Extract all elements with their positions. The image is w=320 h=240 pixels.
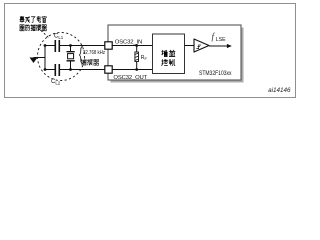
pin OSC32_OUT xyxy=(105,66,112,73)
ground stub wire xyxy=(34,57,46,59)
ground symbol (arrow) xyxy=(30,58,38,64)
label 谐振器 xyxy=(81,59,86,65)
dashed callout pointer xyxy=(41,31,49,38)
capacitor CL1 xyxy=(55,40,59,52)
wire: OSC32_IN internal xyxy=(112,45,153,47)
wire: fLSE output arrow xyxy=(209,44,232,48)
label 增益 xyxy=(162,50,168,56)
wire: OSC32_OUT internal xyxy=(112,69,153,71)
wire: top net OSC32_IN exterior xyxy=(45,45,105,47)
resistor RF xyxy=(135,46,139,70)
wire: gain box to amplifier xyxy=(185,45,195,47)
node: crystal bottom junction xyxy=(69,68,72,71)
node: CL1-rail junction xyxy=(44,44,47,47)
label 控制 xyxy=(162,59,168,65)
svg-text:CL2: CL2 xyxy=(51,79,61,85)
svg-text:OSC32_IN: OSC32_IN xyxy=(115,40,142,46)
brace xyxy=(79,46,83,64)
pin OSC32_IN xyxy=(105,42,112,49)
hysteresis symbol xyxy=(196,45,201,49)
svg-text:STM32F103xx: STM32F103xx xyxy=(199,70,232,77)
STM32 box shadow xyxy=(111,28,244,83)
svg-text:LSE: LSE xyxy=(216,37,226,43)
node: CL2-rail junction xyxy=(44,68,47,71)
STM32F103xx box xyxy=(108,25,241,80)
node: RF bottom junction xyxy=(135,68,138,71)
wire: bottom net OSC32_OUT exterior xyxy=(45,69,105,71)
op-amp (oscillator amplifier) xyxy=(194,39,209,52)
node: RF top junction xyxy=(135,44,138,47)
gain control box xyxy=(153,34,185,74)
svg-text:OSC32_OUT: OSC32_OUT xyxy=(113,75,147,81)
svg-text:32.768 kHz: 32.768 kHz xyxy=(83,50,105,56)
dashed ellipse (resonator grouping) xyxy=(38,33,85,81)
annotation text line1 集成了电容 xyxy=(20,16,25,22)
node: crystal top junction xyxy=(69,44,72,47)
crystal 32.768 kHz xyxy=(67,46,75,70)
svg-text:CL1: CL1 xyxy=(54,34,64,40)
wire: left ground rail xyxy=(44,46,46,70)
annotation text line2 器的谐振器 xyxy=(20,25,25,31)
svg-text:ai14146: ai14146 xyxy=(268,87,291,94)
svg-text:RF: RF xyxy=(141,55,148,61)
capacitor CL2 xyxy=(55,64,59,76)
border frame xyxy=(5,4,296,98)
